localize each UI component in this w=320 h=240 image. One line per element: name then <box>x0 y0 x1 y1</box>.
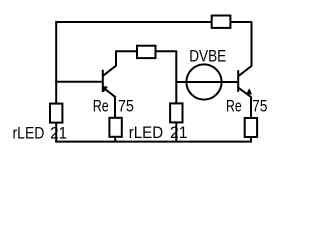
svg-text:21: 21 <box>50 123 67 142</box>
wire: left rLED to bottom rail <box>55 122 57 141</box>
resistor Re 75 (1) box <box>109 118 121 137</box>
transistor Q1 emitter lead down to Re resistor <box>103 88 115 118</box>
source DVBE circle <box>186 64 221 99</box>
svg-text:rLED: rLED <box>13 123 45 142</box>
wire: mid resistor to riser node, down to rLED 21 (2) <box>156 51 177 103</box>
resistor Re 75 (2) box <box>245 118 257 137</box>
transistor Q2 emitter lead down to Re resistor <box>239 88 251 118</box>
svg-text:75: 75 <box>252 97 267 116</box>
svg-text:Re: Re <box>93 96 109 115</box>
resistor R mid (box between Q1 collector and node) <box>137 46 156 58</box>
transistor Q1 collector lead up to mid resistor wire <box>103 51 137 75</box>
wire: node to DVBE source to Q2 base <box>176 81 237 83</box>
transistor Q1 base bar <box>102 70 104 92</box>
wire: Q1 Re resistor to bottom rail <box>114 137 116 142</box>
svg-text:rLED: rLED <box>129 123 163 142</box>
svg-text:DVBE: DVBE <box>189 46 226 65</box>
transistor Q1 emitter arrow (PNP) <box>102 86 108 92</box>
svg-text:Re: Re <box>226 97 242 116</box>
wire: left rail and top rail <box>56 22 212 104</box>
resistor rLED 21 (1) box on left rail <box>50 104 62 123</box>
svg-text:21: 21 <box>170 123 188 142</box>
transistor Q2 base bar <box>237 70 239 92</box>
resistor rLED 21 (2) box on mid riser <box>170 103 182 122</box>
svg-text:75: 75 <box>118 96 134 115</box>
wire: mid rLED to bottom rail <box>175 122 177 141</box>
transistor Q2 emitter arrow <box>246 88 252 94</box>
wire: bottom rail <box>55 141 252 143</box>
wire: Q1 base lead <box>55 81 102 83</box>
resistor R top (box on top rail) <box>212 16 231 28</box>
wire: top rail right segment and right drop to Q2 collector <box>230 22 251 76</box>
wire: Q2 Re resistor to bottom rail <box>250 137 252 142</box>
